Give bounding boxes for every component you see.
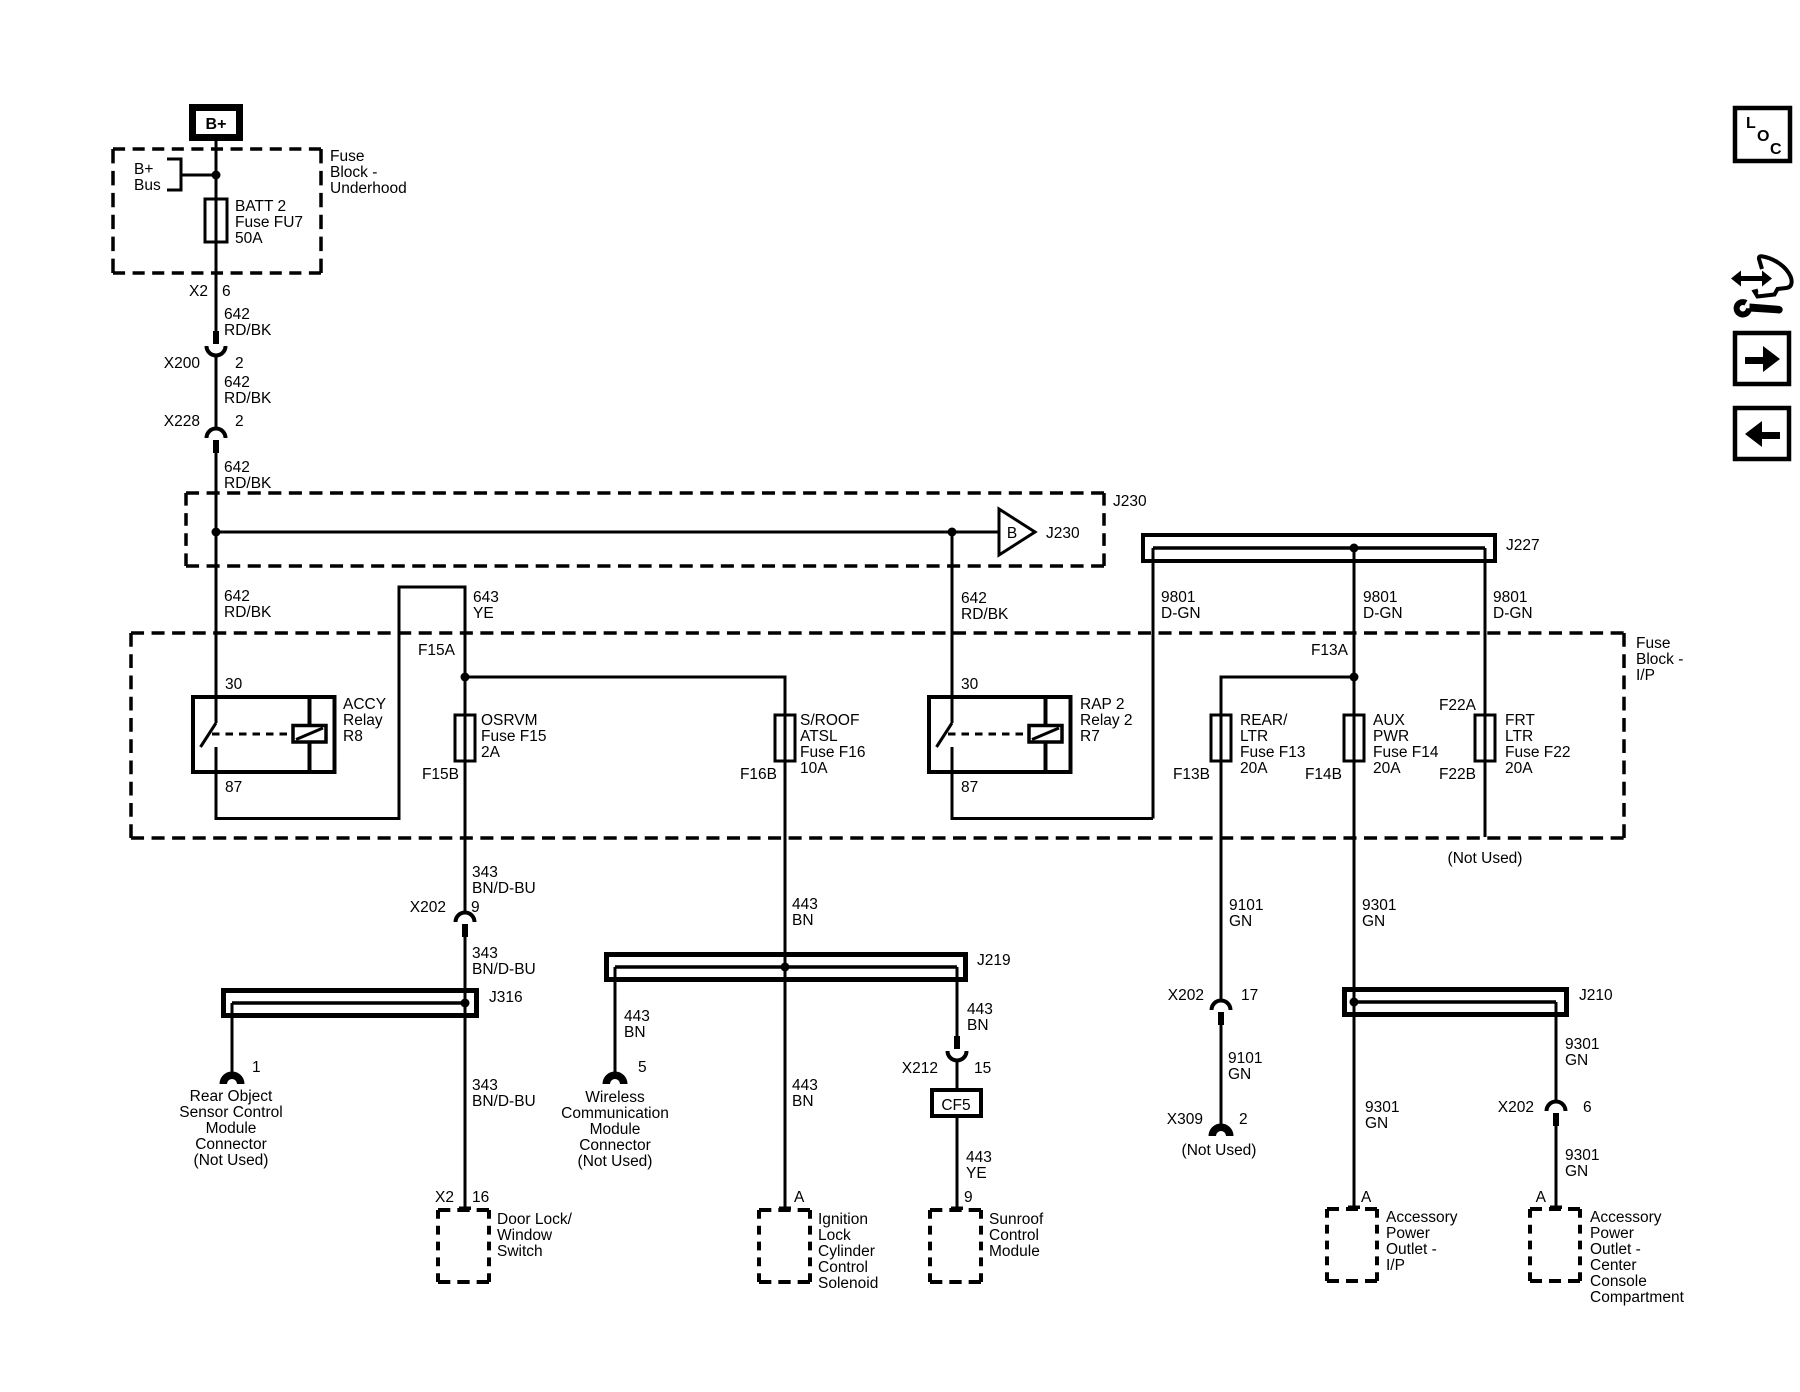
svg-text:Connector: Connector bbox=[195, 1136, 267, 1153]
Accessory Power Outlet I/P dashed box bbox=[1327, 1207, 1377, 1211]
svg-text:X309: X309 bbox=[1167, 1111, 1203, 1128]
ring terminal 5 bbox=[606, 1075, 624, 1084]
svg-text:FRT: FRT bbox=[1505, 712, 1535, 729]
svg-text:Switch: Switch bbox=[497, 1243, 543, 1260]
svg-text:Block -: Block - bbox=[330, 164, 377, 181]
svg-text:J230: J230 bbox=[1046, 525, 1080, 542]
wire J316 left to terminal 1 bbox=[231, 1003, 234, 1073]
svg-text:GN: GN bbox=[1229, 913, 1252, 930]
fuse F14 AUX PWR 20A bbox=[1344, 715, 1364, 761]
svg-text:Relay: Relay bbox=[343, 712, 383, 729]
svg-text:R8: R8 bbox=[343, 728, 363, 745]
svg-text:17: 17 bbox=[1241, 987, 1258, 1004]
svg-text:Fuse FU7: Fuse FU7 bbox=[235, 214, 303, 231]
svg-text:343: 343 bbox=[472, 864, 498, 881]
svg-text:RD/BK: RD/BK bbox=[224, 322, 272, 339]
svg-text:Fuse F22: Fuse F22 bbox=[1505, 744, 1570, 761]
stub into accessory outlet center console bbox=[1555, 1180, 1558, 1209]
svg-text:BN: BN bbox=[624, 1024, 646, 1041]
wire F16 down 443 BN bbox=[784, 761, 787, 1182]
svg-text:Fuse: Fuse bbox=[1636, 635, 1670, 652]
svg-text:AUX: AUX bbox=[1373, 712, 1406, 729]
wire X228 down to ACCY relay bbox=[215, 453, 218, 723]
svg-text:15: 15 bbox=[974, 1060, 991, 1077]
svg-text:Power: Power bbox=[1386, 1225, 1430, 1242]
svg-text:X2: X2 bbox=[435, 1189, 454, 1206]
svg-text:RD/BK: RD/BK bbox=[961, 606, 1009, 623]
svg-text:A: A bbox=[1536, 1189, 1547, 1206]
svg-text:BN: BN bbox=[792, 912, 814, 929]
fuse F16 S/ROOF ATSL 10A bbox=[775, 715, 795, 761]
svg-text:Control: Control bbox=[818, 1259, 868, 1276]
svg-text:10A: 10A bbox=[800, 760, 828, 777]
svg-text:Fuse F13: Fuse F13 bbox=[1240, 744, 1305, 761]
svg-text:443: 443 bbox=[966, 1149, 992, 1166]
svg-text:F13B: F13B bbox=[1173, 766, 1210, 783]
svg-text:X202: X202 bbox=[410, 899, 446, 916]
svg-text:GN: GN bbox=[1362, 913, 1385, 930]
stub into ignition solenoid bbox=[784, 1182, 787, 1210]
svg-text:Connector: Connector bbox=[579, 1137, 651, 1154]
svg-text:5: 5 bbox=[638, 1059, 647, 1076]
svg-text:Relay 2: Relay 2 bbox=[1080, 712, 1133, 729]
svg-text:X200: X200 bbox=[164, 355, 201, 372]
svg-text:9301: 9301 bbox=[1565, 1036, 1599, 1053]
svg-text:A: A bbox=[794, 1189, 805, 1206]
svg-text:Wireless: Wireless bbox=[585, 1089, 645, 1106]
wire X202 to X309 9101 GN bbox=[1220, 1025, 1223, 1125]
back arrow icon bbox=[1735, 408, 1789, 459]
svg-text:20A: 20A bbox=[1373, 760, 1401, 777]
wire X202 to J316 bbox=[464, 937, 467, 1182]
svg-text:Window: Window bbox=[497, 1227, 553, 1244]
svg-text:D-GN: D-GN bbox=[1363, 605, 1403, 622]
svg-text:9101: 9101 bbox=[1229, 897, 1263, 914]
svg-text:642: 642 bbox=[224, 588, 250, 605]
fuse F13 REAR/LTR 20A bbox=[1211, 715, 1231, 761]
wire J227 middle leg 9801 D-GN bbox=[1353, 548, 1356, 715]
svg-text:Ignition: Ignition bbox=[818, 1211, 868, 1228]
svg-text:J227: J227 bbox=[1506, 537, 1540, 554]
svg-text:(Not Used): (Not Used) bbox=[578, 1153, 653, 1170]
wire J227 left leg 9801 D-GN bbox=[1152, 548, 1155, 819]
svg-text:9301: 9301 bbox=[1565, 1147, 1599, 1164]
svg-text:YE: YE bbox=[966, 1165, 987, 1182]
svg-text:16: 16 bbox=[472, 1189, 489, 1206]
Fuse Block - I/P dashed box bbox=[131, 631, 1624, 635]
svg-text:GN: GN bbox=[1565, 1052, 1588, 1069]
svg-text:Cylinder: Cylinder bbox=[818, 1243, 875, 1260]
Sunroof Control Module dashed box bbox=[930, 1208, 981, 1212]
svg-text:9101: 9101 bbox=[1228, 1050, 1262, 1067]
wire J210 right 9301 GN bbox=[1555, 1002, 1558, 1101]
svg-text:D-GN: D-GN bbox=[1493, 605, 1533, 622]
in-line fuse CF5 bbox=[932, 1090, 981, 1116]
svg-text:642: 642 bbox=[961, 590, 987, 607]
svg-text:B+: B+ bbox=[134, 161, 153, 178]
inline connector X202 bbox=[1547, 1102, 1566, 1112]
svg-text:Console: Console bbox=[1590, 1273, 1647, 1290]
svg-text:642: 642 bbox=[224, 306, 250, 323]
svg-text:Fuse F16: Fuse F16 bbox=[800, 744, 865, 761]
relay RAP 2 R7 bbox=[929, 676, 1133, 796]
svg-text:50A: 50A bbox=[235, 230, 263, 247]
inline connector X228 bbox=[207, 429, 226, 439]
svg-text:OSRVM: OSRVM bbox=[481, 712, 538, 729]
Accessory Power Outlet Center Console dashed box bbox=[1530, 1207, 1580, 1211]
svg-text:BN/D-BU: BN/D-BU bbox=[472, 880, 536, 897]
svg-text:9301: 9301 bbox=[1365, 1099, 1399, 1116]
svg-text:RD/BK: RD/BK bbox=[224, 604, 272, 621]
wire J227 right leg 9801 D-GN bbox=[1484, 548, 1487, 715]
svg-text:B: B bbox=[1007, 525, 1017, 542]
svg-text:Sensor Control: Sensor Control bbox=[179, 1104, 282, 1121]
svg-text:RD/BK: RD/BK bbox=[224, 475, 272, 492]
svg-text:443: 443 bbox=[624, 1008, 650, 1025]
svg-text:RD/BK: RD/BK bbox=[224, 390, 272, 407]
svg-text:F16B: F16B bbox=[740, 766, 777, 783]
connector bar J210 bbox=[1345, 990, 1567, 1015]
svg-text:9801: 9801 bbox=[1363, 589, 1397, 606]
svg-text:BN: BN bbox=[967, 1017, 989, 1034]
svg-text:6: 6 bbox=[222, 283, 231, 300]
B+ battery terminal symbol bbox=[193, 108, 240, 138]
svg-text:Fuse F15: Fuse F15 bbox=[481, 728, 546, 745]
svg-text:YE: YE bbox=[473, 605, 494, 622]
svg-text:REAR/: REAR/ bbox=[1240, 712, 1288, 729]
wire J219 right 443 BN bbox=[956, 967, 959, 1037]
wire B+ to fuse FU7 bbox=[215, 141, 218, 199]
svg-text:642: 642 bbox=[224, 374, 250, 391]
inline connector X200 bbox=[213, 331, 219, 344]
svg-text:Power: Power bbox=[1590, 1225, 1634, 1242]
Door Lock/Window Switch dashed box bbox=[438, 1208, 489, 1212]
stub into door lock switch bbox=[464, 1182, 467, 1210]
svg-text:Lock: Lock bbox=[818, 1227, 851, 1244]
svg-text:643: 643 bbox=[473, 589, 499, 606]
svg-text:BN/D-BU: BN/D-BU bbox=[472, 1093, 536, 1110]
junction main/J230 bbox=[212, 528, 221, 537]
fuse F22 FRT LTR 20A bbox=[1475, 715, 1495, 761]
wire F15 down 343 BN/D-BU bbox=[464, 761, 467, 912]
svg-text:Accessory: Accessory bbox=[1386, 1209, 1458, 1226]
wire CF5 down 443 YE bbox=[956, 1116, 959, 1182]
stub into sunroof module bbox=[956, 1182, 959, 1210]
svg-text:Solenoid: Solenoid bbox=[818, 1275, 878, 1292]
svg-text:F13A: F13A bbox=[1311, 642, 1349, 659]
fuse FU7 BATT 2 50A bbox=[205, 199, 227, 242]
svg-text:I/P: I/P bbox=[1386, 1257, 1405, 1274]
inline connector X212 bbox=[954, 1036, 960, 1049]
svg-text:RAP 2: RAP 2 bbox=[1080, 696, 1125, 713]
wire X212 to CF5 bbox=[956, 1061, 959, 1091]
svg-text:20A: 20A bbox=[1505, 760, 1533, 777]
svg-text:Bus: Bus bbox=[134, 177, 161, 194]
J230 connector triangle B bbox=[999, 509, 1035, 555]
svg-text:Accessory: Accessory bbox=[1590, 1209, 1662, 1226]
svg-text:1: 1 bbox=[252, 1059, 261, 1076]
svg-text:Outlet -: Outlet - bbox=[1386, 1241, 1437, 1258]
wire J230 to RAP2 relay bbox=[951, 532, 954, 723]
ring terminal 1 bbox=[223, 1075, 241, 1084]
svg-text:S/ROOF: S/ROOF bbox=[800, 712, 859, 729]
svg-text:BATT 2: BATT 2 bbox=[235, 198, 286, 215]
wire branch to F16 bbox=[465, 677, 785, 715]
svg-text:B+: B+ bbox=[206, 116, 227, 133]
svg-text:20A: 20A bbox=[1240, 760, 1268, 777]
svg-text:642: 642 bbox=[224, 459, 250, 476]
svg-text:87: 87 bbox=[961, 779, 978, 796]
svg-text:(Not Used): (Not Used) bbox=[1182, 1142, 1257, 1159]
svg-text:F15B: F15B bbox=[422, 766, 459, 783]
junction F13A branch bbox=[1350, 673, 1359, 682]
svg-text:9: 9 bbox=[471, 899, 480, 916]
svg-text:J219: J219 bbox=[977, 952, 1011, 969]
svg-text:443: 443 bbox=[967, 1001, 993, 1018]
svg-text:LTR: LTR bbox=[1240, 728, 1268, 745]
svg-text:CF5: CF5 bbox=[941, 1097, 970, 1114]
svg-text:GN: GN bbox=[1228, 1066, 1251, 1083]
junction bus/main bbox=[212, 171, 221, 180]
ring terminal X309 bbox=[1212, 1127, 1230, 1136]
svg-text:J210: J210 bbox=[1579, 987, 1613, 1004]
svg-text:Compartment: Compartment bbox=[1590, 1289, 1685, 1306]
forward arrow icon bbox=[1735, 333, 1789, 384]
svg-text:X202: X202 bbox=[1168, 987, 1204, 1004]
wire F14 down 9301 GN bbox=[1353, 761, 1356, 1182]
svg-text:C: C bbox=[1770, 141, 1782, 158]
inline connector X202 bbox=[456, 913, 475, 922]
svg-text:F22B: F22B bbox=[1439, 766, 1476, 783]
svg-text:9801: 9801 bbox=[1161, 589, 1195, 606]
svg-text:2: 2 bbox=[235, 355, 244, 372]
svg-text:J316: J316 bbox=[489, 989, 523, 1006]
svg-text:GN: GN bbox=[1365, 1115, 1388, 1132]
svg-text:Communication: Communication bbox=[561, 1105, 669, 1122]
svg-text:I/P: I/P bbox=[1636, 667, 1655, 684]
svg-text:443: 443 bbox=[792, 896, 818, 913]
wire branch to F13 bbox=[1221, 677, 1354, 715]
svg-text:Underhood: Underhood bbox=[330, 180, 407, 197]
svg-text:9301: 9301 bbox=[1362, 897, 1396, 914]
J230 dashed box bbox=[186, 491, 1104, 495]
svg-text:443: 443 bbox=[792, 1077, 818, 1094]
wire X200 to X228 bbox=[215, 356, 218, 430]
svg-text:Sunroof: Sunroof bbox=[989, 1211, 1044, 1228]
svg-text:Rear Object: Rear Object bbox=[190, 1088, 273, 1105]
svg-text:Outlet -: Outlet - bbox=[1590, 1241, 1641, 1258]
connector bar J227 bbox=[1143, 535, 1495, 561]
svg-text:Fuse: Fuse bbox=[330, 148, 364, 165]
svg-text:30: 30 bbox=[961, 676, 979, 693]
junction RAP2 branch bbox=[948, 528, 957, 537]
svg-text:9: 9 bbox=[964, 1189, 973, 1206]
svg-text:(Not Used): (Not Used) bbox=[194, 1152, 269, 1169]
svg-text:BN/D-BU: BN/D-BU bbox=[472, 961, 536, 978]
svg-text:BN: BN bbox=[792, 1093, 814, 1110]
connector bar J219 bbox=[607, 955, 966, 980]
connector bar J316 bbox=[224, 991, 477, 1016]
svg-text:Door Lock/: Door Lock/ bbox=[497, 1211, 573, 1228]
svg-text:X2: X2 bbox=[189, 283, 208, 300]
svg-text:F22A: F22A bbox=[1439, 697, 1477, 714]
svg-text:Module: Module bbox=[206, 1120, 257, 1137]
svg-text:GN: GN bbox=[1565, 1163, 1588, 1180]
J230 bus wire bbox=[216, 531, 999, 534]
fuse F15 OSRVM 2A bbox=[455, 715, 475, 761]
svg-text:ACCY: ACCY bbox=[343, 696, 386, 713]
svg-text:X228: X228 bbox=[164, 413, 200, 430]
wire J219 left 443 BN bbox=[614, 967, 617, 1073]
svg-text:O: O bbox=[1757, 128, 1769, 145]
svg-text:F14B: F14B bbox=[1305, 766, 1342, 783]
svg-text:Module: Module bbox=[590, 1121, 641, 1138]
svg-text:Fuse F14: Fuse F14 bbox=[1373, 744, 1439, 761]
svg-text:J230: J230 bbox=[1113, 493, 1147, 510]
wire F22 not used bbox=[1484, 761, 1487, 837]
svg-text:ATSL: ATSL bbox=[800, 728, 838, 745]
svg-text:D-GN: D-GN bbox=[1161, 605, 1201, 622]
svg-text:30: 30 bbox=[225, 676, 243, 693]
svg-text:2A: 2A bbox=[481, 744, 501, 761]
svg-text:343: 343 bbox=[472, 945, 498, 962]
svg-text:L: L bbox=[1746, 115, 1756, 132]
Ignition Lock Cylinder Control Solenoid dashed box bbox=[759, 1208, 810, 1212]
svg-text:343: 343 bbox=[472, 1077, 498, 1094]
svg-text:X212: X212 bbox=[902, 1060, 938, 1077]
wire bus to main bbox=[181, 174, 216, 177]
svg-text:R7: R7 bbox=[1080, 728, 1100, 745]
vehicle/wrench icon bbox=[1731, 256, 1792, 317]
svg-text:9801: 9801 bbox=[1493, 589, 1527, 606]
svg-text:X202: X202 bbox=[1498, 1099, 1534, 1116]
svg-text:PWR: PWR bbox=[1373, 728, 1409, 745]
svg-text:F15A: F15A bbox=[418, 642, 456, 659]
wire FU7 to X200 bbox=[215, 242, 218, 332]
svg-text:6: 6 bbox=[1583, 1099, 1592, 1116]
wire F13 down 9101 GN bbox=[1220, 761, 1223, 1000]
svg-text:Block -: Block - bbox=[1636, 651, 1683, 668]
Fuse Block - Underhood dashed box bbox=[113, 147, 321, 151]
svg-text:87: 87 bbox=[225, 779, 242, 796]
svg-text:2: 2 bbox=[235, 413, 244, 430]
svg-text:2: 2 bbox=[1239, 1111, 1248, 1128]
relay ACCY R8 bbox=[193, 676, 386, 796]
stub into accessory outlet I/P bbox=[1353, 1180, 1356, 1209]
wire RAP2 87 to J227 bbox=[952, 747, 1153, 819]
inline connector X202 bbox=[1212, 1001, 1231, 1011]
svg-text:Module: Module bbox=[989, 1243, 1040, 1260]
LOC icon box bbox=[1735, 108, 1790, 161]
svg-text:LTR: LTR bbox=[1505, 728, 1533, 745]
svg-text:Center: Center bbox=[1590, 1257, 1637, 1274]
wire X202 down 9301 GN bbox=[1555, 1126, 1558, 1180]
wire ACCY 87 out bbox=[216, 587, 465, 819]
svg-text:(Not Used): (Not Used) bbox=[1448, 850, 1523, 867]
svg-text:Control: Control bbox=[989, 1227, 1039, 1244]
junction F15A branch bbox=[461, 673, 470, 682]
svg-text:A: A bbox=[1361, 1189, 1372, 1206]
